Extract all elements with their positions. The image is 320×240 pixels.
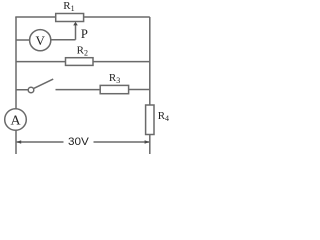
svg-text:V: V — [36, 33, 46, 48]
svg-text:P: P — [81, 27, 88, 41]
svg-text:A: A — [11, 114, 22, 129]
svg-text:30V: 30V — [68, 136, 89, 148]
